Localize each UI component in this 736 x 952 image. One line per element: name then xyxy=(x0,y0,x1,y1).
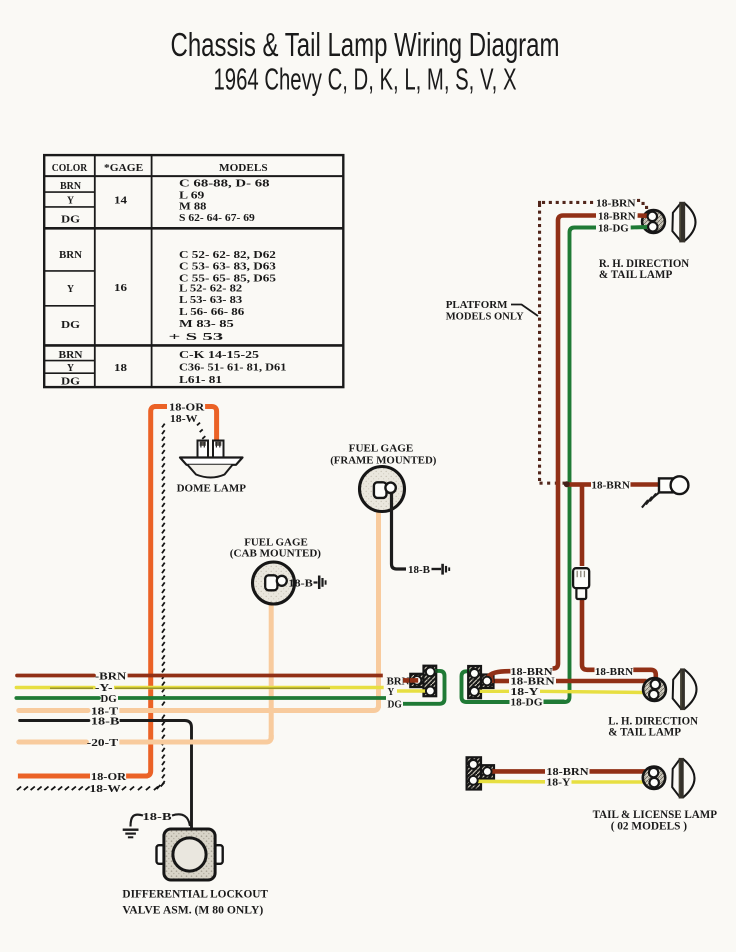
svg-text:R. H. DIRECTION: R. H. DIRECTION xyxy=(599,258,690,270)
svg-text:BRN: BRN xyxy=(59,250,82,261)
svg-text:-20-T: -20-T xyxy=(87,737,119,749)
svg-text:BRN: BRN xyxy=(59,350,83,361)
svg-text:DG: DG xyxy=(388,699,403,711)
svg-text:18-DG: 18-DG xyxy=(598,222,629,234)
svg-text:C 53- 63- 83, D63: C 53- 63- 83, D63 xyxy=(179,262,276,273)
svg-text:L61- 81: L61- 81 xyxy=(179,375,222,386)
svg-text:16: 16 xyxy=(114,283,127,294)
svg-text:18-DG: 18-DG xyxy=(510,696,543,708)
svg-text:Y: Y xyxy=(67,284,74,295)
svg-text:18-BRN: 18-BRN xyxy=(598,210,636,222)
svg-text:DG: DG xyxy=(100,693,117,705)
svg-text:( 02 MODELS ): ( 02 MODELS ) xyxy=(611,820,687,832)
svg-text:Chassis & Tail Lamp Wiring Dia: Chassis & Tail Lamp Wiring Diagram xyxy=(171,27,560,64)
svg-text:18-B: 18-B xyxy=(408,564,431,576)
svg-text:(CAB MOUNTED): (CAB MOUNTED) xyxy=(230,548,322,560)
svg-text:18-B: 18-B xyxy=(288,578,313,590)
svg-text:18-BRN: 18-BRN xyxy=(591,480,630,492)
svg-text:14: 14 xyxy=(114,196,128,207)
svg-text:18-W: 18-W xyxy=(170,413,198,425)
svg-text:L 52- 62- 82: L 52- 62- 82 xyxy=(179,283,242,294)
svg-text:DG: DG xyxy=(61,377,80,388)
svg-text:DG: DG xyxy=(61,215,80,226)
svg-text:18-B: 18-B xyxy=(91,715,120,727)
svg-text:COLOR: COLOR xyxy=(52,163,88,174)
svg-text:MODELS: MODELS xyxy=(219,163,268,174)
svg-text:C36- 51- 61- 81, D61: C36- 51- 61- 81, D61 xyxy=(179,363,286,374)
svg-text:VALVE ASM. (M 80 ONLY): VALVE ASM. (M 80 ONLY) xyxy=(122,905,263,917)
svg-text:Y: Y xyxy=(388,686,395,698)
svg-text:& TAIL LAMP: & TAIL LAMP xyxy=(599,269,672,281)
svg-text:FUEL GAGE: FUEL GAGE xyxy=(349,442,414,454)
svg-text:(FRAME MOUNTED): (FRAME MOUNTED) xyxy=(330,455,437,467)
svg-text:18-OR: 18-OR xyxy=(91,771,127,783)
svg-text:C-K 14-15-25: C-K 14-15-25 xyxy=(179,350,259,361)
svg-text:C 52- 62- 82, D62: C 52- 62- 82, D62 xyxy=(179,250,276,261)
svg-text:TAIL & LICENSE LAMP: TAIL & LICENSE LAMP xyxy=(593,809,717,821)
svg-text:Y: Y xyxy=(67,363,74,374)
svg-text:DIFFERENTIAL LOCKOUT: DIFFERENTIAL LOCKOUT xyxy=(122,889,268,901)
svg-text:1964 Chevy C, D, K, L, M, S, V: 1964 Chevy C, D, K, L, M, S, V, X xyxy=(214,61,517,96)
svg-text:BRN: BRN xyxy=(60,181,81,192)
svg-text:DG: DG xyxy=(61,320,80,331)
svg-text:M 83- 85: M 83- 85 xyxy=(179,319,234,330)
svg-text:C 68-88, D- 68: C 68-88, D- 68 xyxy=(179,179,270,190)
svg-text:*GAGE: *GAGE xyxy=(104,163,143,174)
svg-text:MODELS ONLY: MODELS ONLY xyxy=(446,310,524,322)
svg-text:S 62- 64- 67- 69: S 62- 64- 67- 69 xyxy=(179,213,255,224)
svg-text:L 69: L 69 xyxy=(179,191,204,202)
svg-text:18-BRN: 18-BRN xyxy=(595,666,633,678)
svg-text:DOME LAMP: DOME LAMP xyxy=(177,483,247,495)
svg-text:-BRN: -BRN xyxy=(95,670,126,682)
svg-text:M 88: M 88 xyxy=(179,202,206,213)
svg-text:L 53- 63- 83: L 53- 63- 83 xyxy=(179,295,242,306)
svg-text:L 56- 66- 86: L 56- 66- 86 xyxy=(179,307,244,318)
svg-text:18-B: 18-B xyxy=(143,811,173,823)
svg-text:+ S 53: + S 53 xyxy=(169,332,224,343)
svg-text:18-W: 18-W xyxy=(90,783,121,795)
svg-text:18-Y: 18-Y xyxy=(546,776,570,788)
svg-text:& TAIL LAMP: & TAIL LAMP xyxy=(608,727,681,739)
svg-text:18-BRN: 18-BRN xyxy=(596,197,636,209)
svg-text:18-OR: 18-OR xyxy=(169,401,205,413)
svg-text:Y: Y xyxy=(67,196,74,207)
svg-text:18: 18 xyxy=(114,363,127,374)
